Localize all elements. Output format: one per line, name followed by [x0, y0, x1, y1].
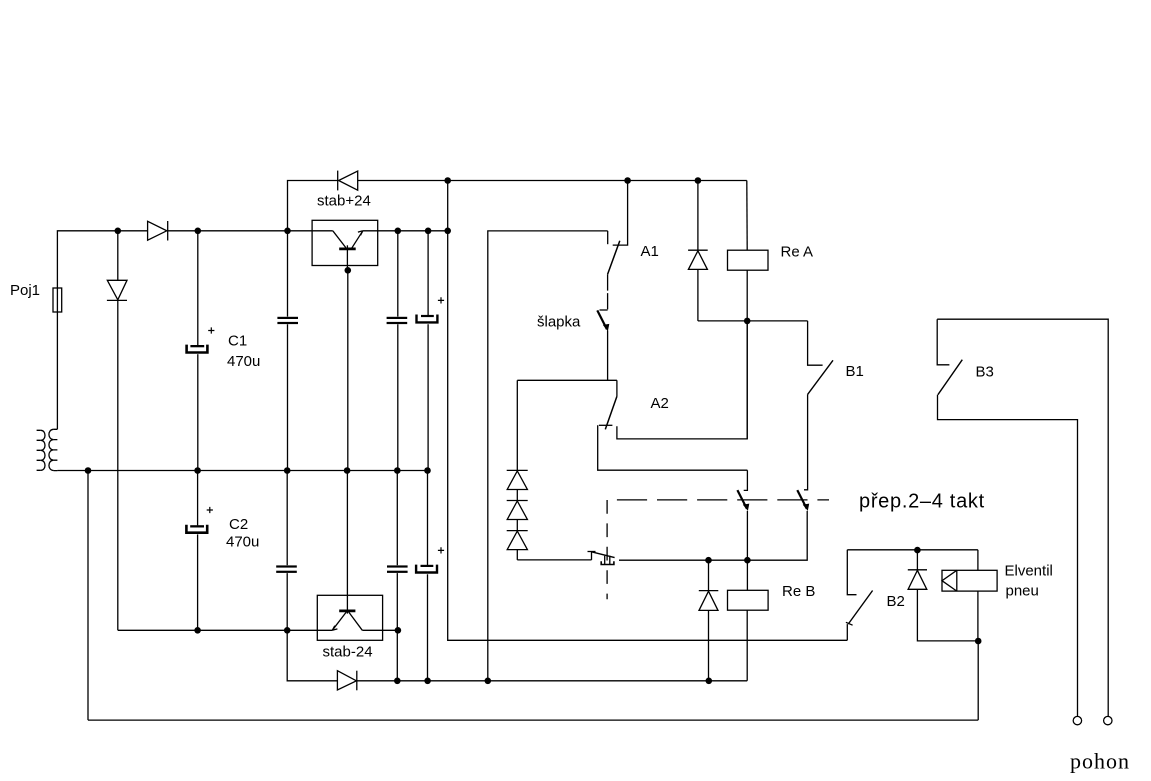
bottom rail y=719.5 [88, 719, 978, 721]
svg-text:A1: A1 [641, 243, 659, 260]
wire: Re B bottom down to rail 680 [746, 610, 748, 681]
node on row 230 at x=287.5 [284, 228, 291, 235]
šlapka contact fixed foot [600, 309, 608, 311]
node row630 x=397.9 [395, 627, 402, 634]
node +rail x=627.6 [624, 177, 631, 184]
wire: x=517.3 down to diode chain [516, 380, 518, 470]
+24 rail y=180.5: corner at x=287.5 down to row 230, right to stab+24 diode [288, 181, 338, 231]
switch B2 top terminal [847, 550, 856, 595]
transformer T1 primary winding [37, 430, 45, 470]
dashed-link contact K1 blade with actuator arrow [737, 490, 749, 511]
capacitor C2 (electrolytic) on x=197.5 lower section [186, 471, 213, 631]
terminal pohon right [1104, 716, 1112, 724]
node row230 end x=447.7 [444, 228, 451, 235]
node +rail x=447.7 [444, 177, 451, 184]
wire: stab+24 emitter down to 0 rail [347, 270, 349, 470]
node x=978 y=641 [975, 638, 982, 645]
wire: K2 down, corner left along y=560 [619, 511, 807, 560]
node 0rail x=427.5 [424, 467, 431, 474]
node row230 x=397.8 [395, 228, 402, 235]
dashed link line horizontal [617, 499, 829, 501]
node row630 x=287 [284, 627, 291, 634]
svg-text:šlapka: šlapka [537, 314, 581, 331]
switch A2 blade [605, 396, 617, 429]
wire: node560 down to Re B top [746, 560, 748, 590]
rail y=680.8 from D4 to Re B corner [357, 680, 747, 682]
wire: K1 to node y=560 [746, 511, 748, 560]
svg-text:pneu: pneu [1006, 583, 1039, 600]
svg-text:pohon: pohon [1070, 749, 1130, 774]
svg-text:Elventil: Elventil [1005, 563, 1053, 580]
node below stab+24 emitter [345, 267, 352, 274]
row y=380.3 between diode chain and A2 [517, 379, 617, 381]
wire: stab-24 right to node x=397.9 [362, 629, 398, 631]
solenoid valve Elventil pneu [942, 550, 997, 641]
dashed-link contact K2 blade with actuator arrow [797, 490, 809, 511]
svg-text:Poj1: Poj1 [10, 282, 40, 299]
switch B3 top terminal [937, 319, 949, 365]
svg-text:Re A: Re A [781, 243, 814, 260]
switch B1 blade [808, 360, 833, 394]
relay coil Re A [728, 250, 769, 270]
wire: A2 left terminal down, right along y=470.2 to dashed contact [598, 425, 748, 470]
wire: chain bottom corner right along y=560 to bracket contact [517, 559, 591, 561]
capacitor C5 (electrolytic) on x=428 upper [417, 231, 445, 471]
node rail680 x=397.3 [394, 678, 401, 685]
capacitor C3 on x=287.5 upper [277, 231, 298, 471]
node rail680 x=487.8 [485, 678, 492, 685]
freewheel diode D10 for valve [908, 550, 978, 641]
stab+24 transistor box U1 [312, 220, 378, 265]
transformer T1 secondary winding [49, 429, 57, 470]
bracket contact K3 on y=560 [588, 552, 615, 565]
capacitor C7 on x=397.5 lower [387, 471, 408, 681]
diode D7 chain bottom [507, 531, 528, 560]
wire: pohon right branch from y=319.2 [937, 319, 1108, 716]
node 0rail x=397.3 [394, 467, 401, 474]
capacitor C6 on x=287 lower [276, 471, 337, 681]
šlapka blade with pedal arrow [597, 310, 609, 331]
wire: B3 bottom, corner right at y=419.6, down to pohon left [938, 395, 1078, 717]
node on row 230 at x=117.8 [115, 228, 122, 235]
wire: D1 cathode to stab+24 transistor collector [168, 230, 333, 232]
wire: row y=630.3 from corner x=117.8 to stab-24 left [118, 629, 332, 631]
svg-text:C1: C1 [228, 333, 247, 350]
diode D6 chain middle [507, 501, 528, 531]
capacitor C4 on x=397.8 upper [387, 231, 408, 471]
terminal pohon left [1073, 716, 1081, 724]
svg-text:stab+24: stab+24 [317, 193, 371, 210]
wire: y=320.9 from D8 to B1 corner [698, 320, 808, 322]
stab-24 transistor symbol [332, 471, 362, 631]
switch A2 top terminal [616, 380, 618, 396]
wire: B1 down to dashed contact 2 [804, 394, 808, 489]
dashed-link contact K1 foot [744, 470, 748, 490]
switch B2 blade [848, 591, 872, 625]
wire: secondary top through fuse up to +rail corner, right to diode D1 [57, 231, 147, 429]
capacitor C8 (electrolytic) on x=427.6 lower [416, 471, 444, 681]
diode D4 on bottom rail y=680.8 (pointing right) [337, 671, 356, 691]
node y560 x=747.4 [744, 557, 751, 564]
wire: transistor right side to row end x=448 [363, 230, 448, 232]
node y560 x=708.5 [705, 557, 712, 564]
wire: +rail corner down to Re A top [746, 181, 748, 251]
wire: x=88 down to bottom rail corner [87, 471, 89, 721]
node +rail x=697.9 [695, 177, 702, 184]
svg-text:B1: B1 [846, 363, 864, 380]
capacitor C1 (electrolytic) on x=197.8 [187, 231, 215, 471]
0 rail y=470.5 from transformer to x=427.5 [57, 470, 427, 472]
wire: x=447.7 from +rail down to y=640.3 then right to B2 [448, 181, 848, 641]
node y550 x=917.4 [914, 547, 921, 554]
stab-24 transistor box U2 [317, 595, 382, 640]
freewheel diode D9 for Re B [699, 560, 719, 681]
svg-text:Re B: Re B [782, 583, 815, 600]
switch B2 lower tick [846, 622, 853, 625]
wire: Re A bottom down [746, 270, 748, 439]
node rail680 x=708.8 [706, 678, 713, 685]
wire: A2 right terminal down to y=438.9, right, up to Re A bottom [617, 321, 747, 439]
wire: B2 bottom to y=640.3 line [846, 624, 848, 640]
wire: +rail from D3 to right corner x=746.8 [358, 180, 747, 182]
node x=747.2 y=320.9 [744, 318, 751, 325]
wire: B2 top line y=549.8 to valve corner [847, 549, 978, 551]
svg-text:stab-24: stab-24 [323, 644, 373, 661]
node 0rail x=347.1 [344, 467, 351, 474]
stab+24 transistor symbol [333, 231, 363, 270]
node 0rail x=88 [85, 467, 92, 474]
svg-text:B3: B3 [976, 364, 994, 381]
switch B1 top terminal [808, 321, 823, 365]
fuse Poj1 [53, 288, 62, 312]
svg-text:B2: B2 [887, 593, 905, 610]
diode D1 (series, pointing right) on y=230 row [148, 221, 168, 241]
node row630 x=197.5 [194, 627, 201, 634]
diode D2 (shunt, pointing down) at x=117.8 [107, 231, 127, 631]
switch A2 bottom tick bar [599, 424, 613, 426]
switch A1 blade [608, 241, 620, 275]
wire: x=487.8 net corner at y=230.9, right to A1, down to rail680 [488, 231, 608, 681]
svg-text:A2: A2 [651, 395, 669, 412]
node 0rail x=197.6 [194, 467, 201, 474]
wire: valve node down to bottom rail [977, 641, 979, 720]
wire: A1 to šlapka contact [607, 274, 609, 309]
freewheel diode D8 for Re A [688, 181, 708, 321]
wire: šlapka down to row y=380.3 [607, 331, 609, 381]
node rail680 x=427.6 [424, 678, 431, 685]
diode D3 stab+24 (pointing left) on y=180.5 [338, 171, 358, 191]
svg-text:470u: 470u [227, 353, 260, 370]
node row230 x=428.1 [425, 228, 432, 235]
node 0rail x=287.2 [284, 467, 291, 474]
switch A1 left terminal [607, 231, 609, 244]
switch B3 blade [938, 360, 962, 395]
dashed link line vertical [606, 500, 608, 599]
diode D5 chain top [507, 470, 528, 500]
svg-text:přep.2–4 takt: přep.2–4 takt [859, 491, 985, 513]
node on row 230 at x=197.8 [195, 228, 202, 235]
svg-text:C2: C2 [229, 516, 248, 533]
relay coil Re B [728, 590, 769, 610]
svg-text:470u: 470u [226, 534, 259, 551]
switch A1 right terminal from +rail [613, 181, 628, 246]
